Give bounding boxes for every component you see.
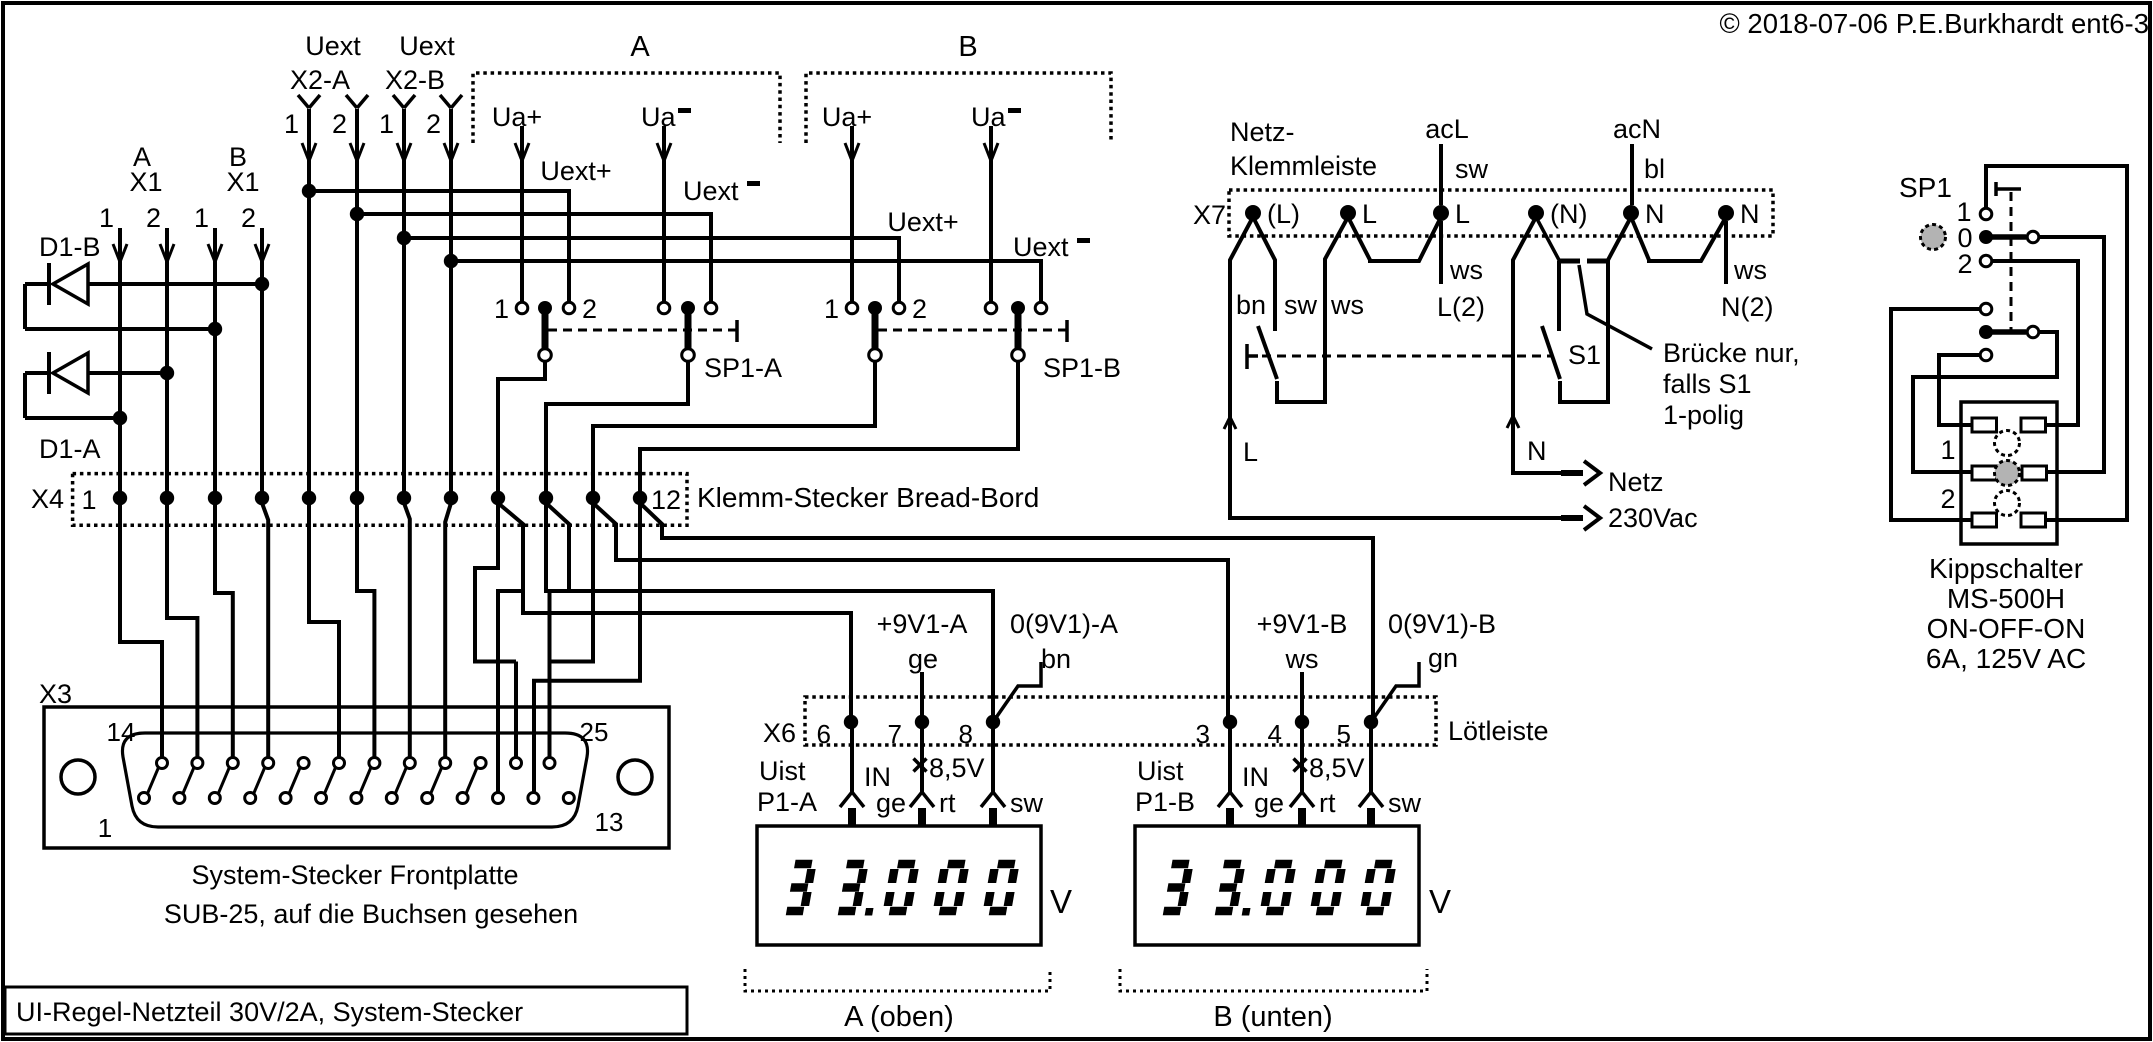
svg-text:2: 2 <box>1940 484 1955 514</box>
svg-text:5: 5 <box>1337 719 1351 749</box>
svg-text:7: 7 <box>888 719 902 749</box>
svg-text:N(2): N(2) <box>1721 292 1774 322</box>
svg-text:Uext: Uext <box>399 31 455 61</box>
svg-text:rt: rt <box>1319 788 1336 818</box>
svg-text:Netz: Netz <box>1608 467 1664 497</box>
svg-text:sw: sw <box>1388 788 1422 818</box>
svg-text:Ua: Ua <box>971 102 1006 132</box>
svg-text:Klemm-Stecker Bread-Bord: Klemm-Stecker Bread-Bord <box>697 482 1039 513</box>
svg-text:gn: gn <box>1428 643 1458 673</box>
svg-text:ws: ws <box>1449 255 1483 285</box>
svg-text:SUB-25, auf die Buchsen gesehe: SUB-25, auf die Buchsen gesehen <box>164 899 578 929</box>
svg-text:4: 4 <box>1268 719 1282 749</box>
svg-text:Lötleiste: Lötleiste <box>1448 716 1549 746</box>
svg-text:X6: X6 <box>763 718 796 748</box>
svg-text:Netz-: Netz- <box>1230 117 1295 147</box>
svg-text:acL: acL <box>1425 114 1469 144</box>
svg-text:2: 2 <box>912 294 927 324</box>
svg-text:Ua: Ua <box>641 102 676 132</box>
svg-text:Uext+: Uext+ <box>540 156 611 186</box>
svg-text:X4: X4 <box>31 484 64 514</box>
svg-text:230Vac: 230Vac <box>1608 503 1698 533</box>
svg-text:13: 13 <box>595 807 624 837</box>
svg-text:X2-A: X2-A <box>290 65 350 95</box>
svg-text:2: 2 <box>1957 249 1972 279</box>
svg-text:SP1-B: SP1-B <box>1043 353 1121 383</box>
svg-text:SP1-A: SP1-A <box>704 353 782 383</box>
svg-text:25: 25 <box>580 717 609 747</box>
svg-text:L(2): L(2) <box>1437 292 1485 322</box>
svg-text:(L): (L) <box>1267 199 1300 229</box>
svg-text:2: 2 <box>582 294 597 324</box>
svg-text:Kippschalter: Kippschalter <box>1929 553 2083 584</box>
svg-text:B (unten): B (unten) <box>1213 1001 1332 1033</box>
svg-text:Ua+: Ua+ <box>822 102 872 132</box>
svg-text:falls S1: falls S1 <box>1663 369 1752 399</box>
svg-text:X3: X3 <box>39 679 72 709</box>
svg-text:bn: bn <box>1041 644 1071 674</box>
svg-text:1: 1 <box>284 109 299 139</box>
svg-text:6A, 125V AC: 6A, 125V AC <box>1926 643 2086 674</box>
svg-text:Uext: Uext <box>683 176 739 206</box>
svg-text:L: L <box>1362 199 1377 229</box>
svg-text:X1: X1 <box>226 167 259 197</box>
svg-text:N: N <box>1527 436 1547 466</box>
svg-text:1: 1 <box>98 813 112 843</box>
svg-text:N: N <box>1740 199 1760 229</box>
svg-text:L: L <box>1243 437 1258 467</box>
svg-text:SP1: SP1 <box>1899 172 1952 203</box>
svg-text:L: L <box>1455 199 1470 229</box>
svg-text:bl: bl <box>1644 154 1665 184</box>
svg-text:P1-A: P1-A <box>757 787 817 817</box>
svg-text:D1-A: D1-A <box>39 434 101 464</box>
svg-text:System-Stecker Frontplatte: System-Stecker Frontplatte <box>191 860 518 890</box>
svg-text:ge: ge <box>908 644 938 674</box>
svg-text:Uist: Uist <box>759 756 806 786</box>
svg-text:14: 14 <box>107 717 136 747</box>
svg-text:Ua+: Ua+ <box>492 102 542 132</box>
svg-text:MS-500H: MS-500H <box>1947 583 2065 614</box>
svg-text:0(9V1)-B: 0(9V1)-B <box>1388 609 1496 639</box>
svg-text:1: 1 <box>194 203 209 233</box>
svg-text:A: A <box>630 31 650 63</box>
svg-text:1: 1 <box>494 294 509 324</box>
svg-text:bn: bn <box>1236 290 1266 320</box>
svg-text:N: N <box>1645 199 1665 229</box>
svg-text:© 2018-07-06 P.E.Burkhardt ent: © 2018-07-06 P.E.Burkhardt ent6-3 <box>1720 8 2149 39</box>
svg-text:ON-OFF-ON: ON-OFF-ON <box>1927 613 2086 644</box>
svg-text:2: 2 <box>146 203 161 233</box>
svg-text:Klemmleiste: Klemmleiste <box>1230 151 1377 181</box>
svg-text:A (oben): A (oben) <box>844 1001 954 1033</box>
svg-text:ge: ge <box>1254 788 1284 818</box>
svg-text:P1-B: P1-B <box>1135 787 1195 817</box>
svg-text:8: 8 <box>959 719 973 749</box>
svg-text:Uext+: Uext+ <box>887 207 958 237</box>
svg-text:rt: rt <box>939 788 956 818</box>
svg-text:8,5V: 8,5V <box>929 753 985 783</box>
svg-text:S1: S1 <box>1568 340 1601 370</box>
svg-text:1-polig: 1-polig <box>1663 400 1744 430</box>
svg-text:ws: ws <box>1330 290 1364 320</box>
svg-text:D1-B: D1-B <box>39 232 101 262</box>
svg-text:ge: ge <box>876 788 906 818</box>
svg-text:ws: ws <box>1285 644 1319 674</box>
svg-text:+9V1-B: +9V1-B <box>1257 609 1348 639</box>
svg-text:Uext: Uext <box>305 31 361 61</box>
svg-text:V: V <box>1429 883 1451 920</box>
svg-text:1: 1 <box>1940 435 1955 465</box>
svg-text:3: 3 <box>1196 719 1210 749</box>
svg-text:2: 2 <box>426 109 441 139</box>
svg-text:0(9V1)-A: 0(9V1)-A <box>1010 609 1118 639</box>
svg-text:sw: sw <box>1455 154 1489 184</box>
svg-text:(N): (N) <box>1550 199 1587 229</box>
svg-text:ws: ws <box>1733 255 1767 285</box>
svg-text:1: 1 <box>824 294 839 324</box>
svg-text:sw: sw <box>1010 788 1044 818</box>
svg-text:Brücke nur,: Brücke nur, <box>1663 338 1800 368</box>
svg-text:X7: X7 <box>1193 200 1226 230</box>
svg-text:2: 2 <box>241 203 256 233</box>
svg-text:+9V1-A: +9V1-A <box>877 609 968 639</box>
svg-text:V: V <box>1050 883 1072 920</box>
svg-text:2: 2 <box>332 109 347 139</box>
svg-text:Uist: Uist <box>1137 756 1184 786</box>
svg-text:X1: X1 <box>129 167 162 197</box>
svg-text:sw: sw <box>1284 290 1318 320</box>
svg-text:1: 1 <box>81 485 96 515</box>
svg-text:1: 1 <box>379 109 394 139</box>
svg-text:X2-B: X2-B <box>385 65 445 95</box>
svg-text:8,5V: 8,5V <box>1309 753 1365 783</box>
svg-text:B: B <box>958 31 977 63</box>
svg-text:1: 1 <box>99 203 114 233</box>
svg-text:UI-Regel-Netzteil 30V/2A, Syst: UI-Regel-Netzteil 30V/2A, System-Stecker <box>16 997 523 1027</box>
svg-text:acN: acN <box>1613 114 1661 144</box>
svg-text:6: 6 <box>817 719 831 749</box>
svg-text:Uext: Uext <box>1013 232 1069 262</box>
svg-text:12: 12 <box>651 485 681 515</box>
